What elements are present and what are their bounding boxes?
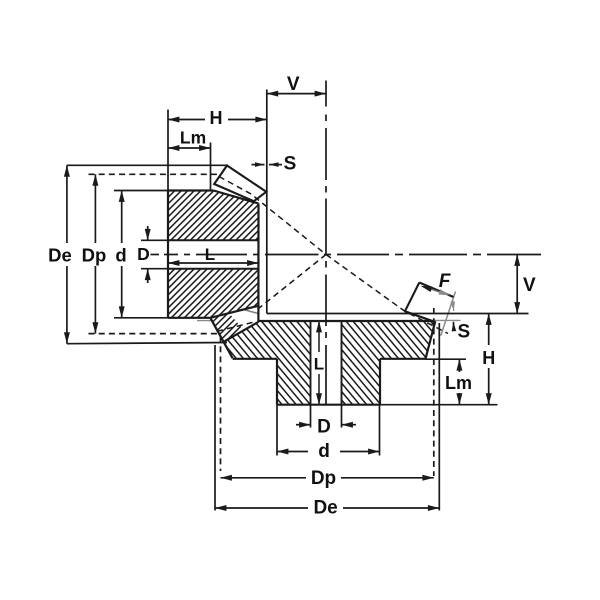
svg-text:Lm: Lm [445,373,472,393]
svg-text:S: S [458,322,471,343]
svg-text:d: d [115,245,126,266]
svg-text:V: V [523,275,536,296]
svg-text:H: H [482,348,495,368]
svg-text:L: L [205,245,215,264]
svg-text:H: H [210,108,223,128]
svg-text:Dp: Dp [311,468,336,489]
svg-text:D: D [317,417,331,438]
svg-text:d: d [318,441,330,462]
svg-text:S: S [284,154,297,175]
svg-text:D: D [137,244,150,264]
svg-text:L: L [314,355,324,374]
svg-text:Dp: Dp [82,245,107,266]
svg-text:De: De [313,498,337,519]
svg-text:F: F [439,271,452,292]
svg-text:Lm: Lm [180,128,206,148]
svg-text:V: V [287,74,300,95]
svg-text:De: De [48,245,72,266]
